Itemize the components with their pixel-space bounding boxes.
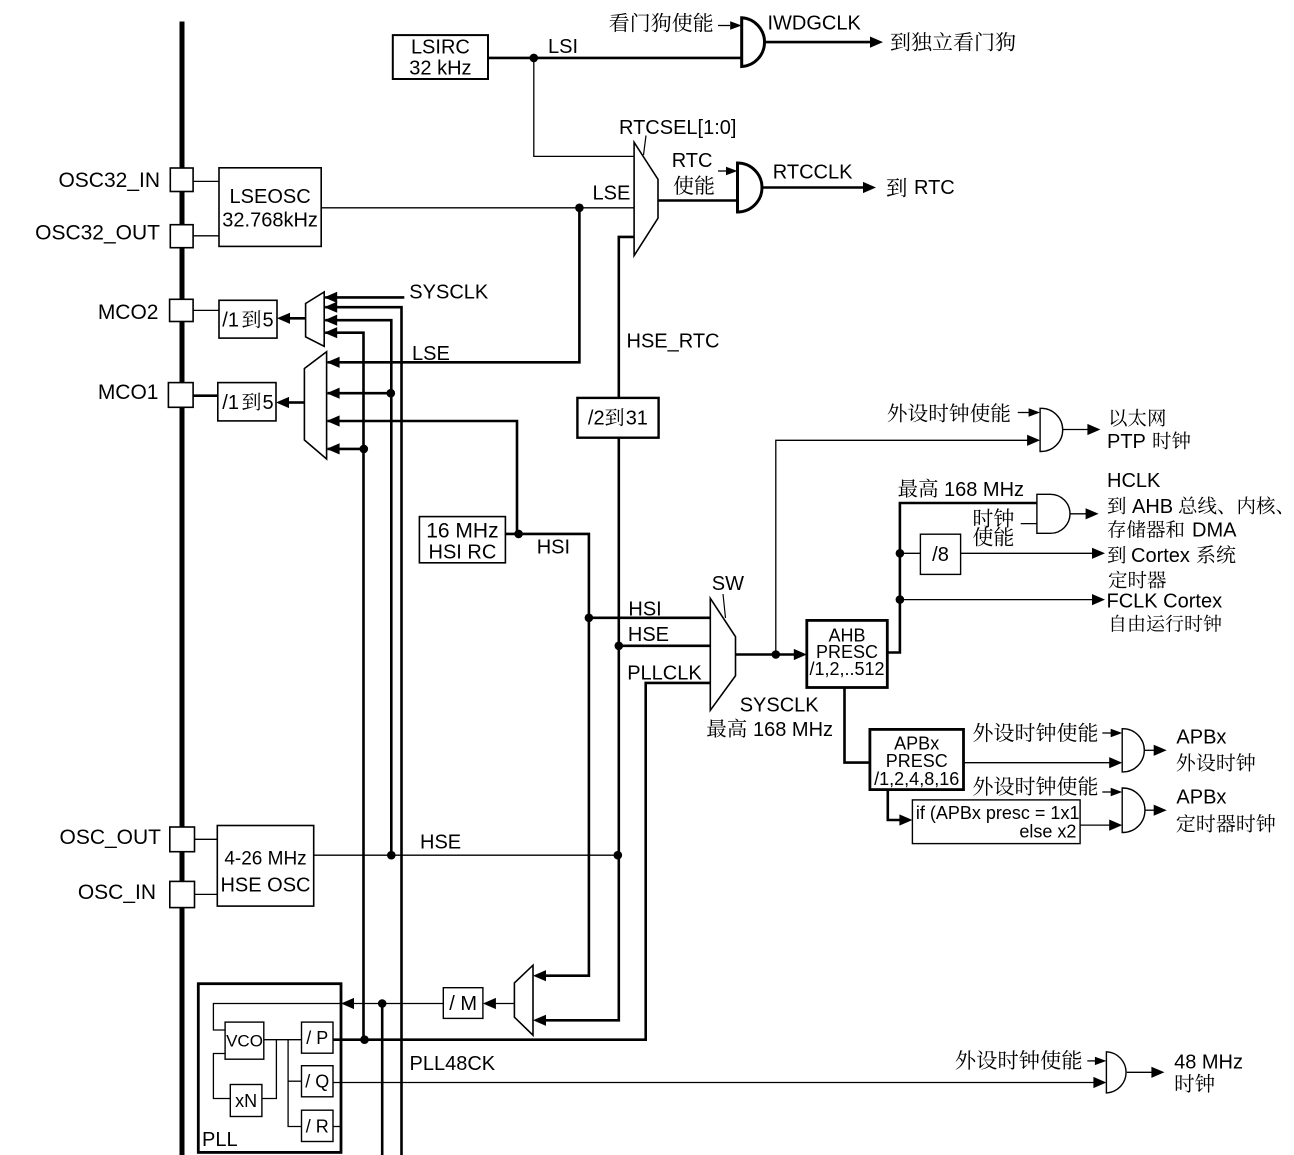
- wire VCO to /Q /R: [288, 1040, 301, 1127]
- box xN: [230, 1085, 262, 1117]
- arrow MCO1 in4: [327, 443, 340, 454]
- arrow PTP input: [1027, 435, 1040, 446]
- arrow MCO1 in1: [327, 357, 340, 368]
- label LSE MCO: [412, 343, 450, 365]
- arrow if box input: [899, 814, 912, 825]
- label PTP clock: [1107, 431, 1190, 453]
- wire LSI from LSIRC to IWDG gate: [488, 57, 742, 60]
- arrow HCLK output: [1086, 508, 1099, 519]
- wire VCO output: [264, 1039, 302, 1041]
- arrow MCO2 output: [277, 313, 290, 324]
- wire MCO1 pin stub: [193, 394, 218, 397]
- arrow MCO1 output: [276, 397, 289, 408]
- arrow RTCCLK to RTC: [863, 182, 876, 193]
- svg-text:HSI RC: HSI RC: [429, 542, 497, 564]
- svg-text:LSEOSC: LSEOSC: [230, 186, 311, 208]
- arrow APBx periph enable: [1111, 729, 1123, 737]
- and-gate HCLK: [1037, 494, 1070, 533]
- junction HSE MCO1: [387, 389, 396, 398]
- svg-text:/ M: / M: [449, 993, 477, 1015]
- box if APBx presc: [912, 800, 1080, 844]
- label OSC32_IN: [58, 169, 160, 192]
- wire HCLK gate output: [1070, 513, 1088, 515]
- pin MCO1: [168, 383, 193, 408]
- label peripheral clock enable APB1: [973, 723, 1097, 743]
- mux PLL input: [514, 965, 533, 1035]
- svg-text:DMA: DMA: [1192, 520, 1237, 542]
- arrow APBx timer enable: [1111, 788, 1123, 796]
- svg-text:RTC: RTC: [672, 150, 713, 172]
- svg-text:OSC_OUT: OSC_OUT: [59, 826, 161, 849]
- wire OSC32_IN pin stub: [193, 180, 219, 182]
- arrow MCO1 in2: [327, 388, 340, 399]
- wire 48MHz gate output: [1127, 1071, 1152, 1073]
- wire HSE_RTC vertical: [546, 237, 634, 1020]
- arrow 48MHz enable: [1095, 1057, 1107, 1065]
- wire FCLK Cortex: [900, 599, 1094, 601]
- box /R: [302, 1110, 334, 1141]
- svg-text:Cortex: Cortex: [1131, 545, 1190, 567]
- svg-text:HSE_RTC: HSE_RTC: [627, 331, 720, 353]
- svg-text:LSI: LSI: [548, 36, 578, 58]
- arrow MCO2 in3: [324, 315, 337, 326]
- wire PTP gate output: [1063, 429, 1089, 431]
- box APBx PRESC: [870, 729, 964, 789]
- label HSE SW: [628, 624, 669, 646]
- wire 48MHz enable stub: [1087, 1060, 1095, 1062]
- label MCO2: [98, 301, 159, 324]
- wire SYSCLK branch up to PTP gate: [776, 440, 1028, 654]
- svg-text:HSE OSC: HSE OSC: [220, 875, 310, 897]
- wire OSC_IN pin stub: [195, 893, 218, 895]
- wire HCLK enable stub: [1021, 523, 1037, 525]
- svg-text:48 MHz: 48 MHz: [1174, 1052, 1243, 1074]
- wire PTP enable stub: [1018, 412, 1029, 414]
- label RTCSEL[1:0]: [619, 117, 736, 139]
- label SW: [712, 573, 744, 595]
- svg-text:RTCSEL[1:0]: RTCSEL[1:0]: [619, 117, 736, 139]
- svg-text:/1,2,..512: /1,2,..512: [809, 659, 884, 679]
- wire xN output up: [262, 1040, 277, 1099]
- arrow 48MHz input: [1093, 1077, 1106, 1088]
- label timer: [1109, 571, 1166, 589]
- divider /2 to 31: [577, 398, 658, 438]
- svg-text:32 kHz: 32 kHz: [409, 58, 471, 80]
- box AHB PRESC: [807, 620, 888, 687]
- wire PLLI2S /M branch down: [381, 1004, 384, 1155]
- arrow RTC enable: [726, 167, 738, 175]
- wire SYSCLK to MCO2 mux: [325, 296, 404, 299]
- arrow PTP output: [1087, 424, 1100, 435]
- svg-text:APBx: APBx: [1176, 726, 1226, 748]
- arrow MCO1 in3: [327, 415, 340, 426]
- label APBx timer: [1176, 787, 1275, 833]
- svg-text:if (APBx presc = 1x1: if (APBx presc = 1x1: [916, 803, 1080, 823]
- mux RTCSEL: [634, 142, 658, 255]
- mux MCO2: [306, 292, 325, 346]
- junction LSI: [530, 54, 539, 63]
- wire HSE from HSE OSC: [314, 854, 618, 856]
- wire HCLK down to APBx PRESC: [845, 688, 870, 763]
- label PLLCLK: [627, 663, 702, 685]
- tick SW: [723, 594, 726, 618]
- wire APBx PRESC output to gate: [964, 762, 1111, 764]
- label to AHB bus core: [1108, 496, 1281, 518]
- svg-text:MCO1: MCO1: [98, 381, 159, 404]
- arrow PTP enable: [1029, 408, 1041, 416]
- wire APBx timer enable stub: [1102, 791, 1111, 793]
- wire HSI to SW mux: [589, 616, 710, 619]
- tick RTCSEL: [644, 136, 647, 156]
- label SYSCLK: [740, 695, 820, 717]
- label HSI SW: [628, 598, 661, 620]
- label RTC enable: [672, 150, 714, 195]
- divider /1 to 5 MCO1: [218, 383, 276, 421]
- wire APBx periph gate output: [1144, 749, 1155, 751]
- label MCO1: [98, 381, 159, 404]
- svg-text:16 MHz: 16 MHz: [426, 520, 498, 543]
- wire OSC_OUT pin stub: [195, 838, 218, 840]
- junction FCLK: [896, 595, 905, 604]
- chip boundary line: [180, 22, 185, 1155]
- label peripheral clock enable APB2: [973, 776, 1097, 796]
- pin OSC32_OUT: [170, 225, 193, 248]
- label clock enable: [973, 508, 1014, 546]
- wire PLL internal input: [213, 1004, 341, 1031]
- junction PLLI2S /M: [378, 999, 387, 1008]
- box /Q: [302, 1066, 334, 1097]
- svg-text:/2: /2: [588, 408, 605, 430]
- svg-text:LSE: LSE: [593, 182, 631, 204]
- svg-text:OSC32_OUT: OSC32_OUT: [35, 222, 160, 245]
- and-gate ethernet PTP: [1040, 408, 1063, 451]
- label FCLK Cortex: [1107, 591, 1223, 613]
- mux MCO1: [304, 352, 326, 459]
- junction HSE SW: [615, 642, 624, 651]
- arrow 48MHz output: [1151, 1067, 1164, 1078]
- wire HCLK to /8: [900, 552, 921, 554]
- junction PLL MCO1: [360, 445, 369, 454]
- arrow APBx timer input: [1109, 820, 1122, 831]
- svg-text:PLL: PLL: [202, 1129, 238, 1151]
- label LSI: [548, 36, 578, 58]
- svg-text:168 MHz: 168 MHz: [753, 719, 833, 741]
- label HSE: [420, 832, 461, 854]
- svg-text:HSE: HSE: [420, 832, 461, 854]
- label OSC32_OUT: [35, 222, 160, 245]
- and-gate 48MHz: [1106, 1052, 1126, 1093]
- arrow PLL mux in1: [533, 970, 546, 981]
- svg-text:168 MHz: 168 MHz: [944, 479, 1024, 501]
- arrow /M output to PLL: [341, 998, 354, 1009]
- wire LSE from LSEOSC to RTCSEL mux: [321, 207, 634, 209]
- svg-text:OSC32_IN: OSC32_IN: [58, 169, 160, 192]
- svg-text:SW: SW: [712, 573, 744, 595]
- label to RTC: [887, 177, 955, 199]
- junction HCLK /8: [896, 549, 905, 558]
- label ethernet: [1111, 409, 1166, 427]
- label max 168 MHz HCLK: [898, 479, 1024, 501]
- label OSC_OUT: [59, 826, 161, 849]
- arrow Cortex timer: [1092, 548, 1105, 559]
- wire HSI to MCO1 mux: [328, 421, 517, 534]
- svg-text:4-26 MHz: 4-26 MHz: [224, 849, 306, 870]
- arrow APBx periph output: [1154, 745, 1167, 756]
- svg-text:PLLCLK: PLLCLK: [627, 663, 702, 685]
- svg-text:IWDGCLK: IWDGCLK: [768, 13, 862, 35]
- junction PLLCLK: [360, 1035, 369, 1044]
- wire PLL48CK from /Q: [333, 1082, 1096, 1084]
- svg-text:else x2: else x2: [1019, 822, 1076, 842]
- svg-text:31: 31: [626, 408, 648, 430]
- wire /M to PLL: [354, 1003, 443, 1005]
- arrow MCO2 in4: [324, 327, 337, 338]
- arrow MCO2 in2: [324, 302, 337, 313]
- box 4-26 MHz HSE OSC: [217, 826, 313, 907]
- wire /R stub: [333, 1126, 341, 1128]
- label watchdog enable: [609, 13, 712, 32]
- svg-text:APBx: APBx: [1176, 787, 1226, 809]
- wire VCO to xN feedback: [213, 1054, 230, 1099]
- wire OSC32_OUT pin stub: [193, 235, 219, 237]
- wire /8 to Cortex timer: [961, 552, 1094, 554]
- box 16 MHz HSI RC: [419, 517, 505, 564]
- svg-text:5: 5: [263, 310, 274, 332]
- wire PLL input mux to /M: [495, 1003, 514, 1005]
- arrow IWDG enable: [730, 21, 742, 29]
- wire LSE vertical branch to MCO1 mux: [328, 208, 580, 362]
- wire MCO2 pin stub: [193, 309, 219, 311]
- wire PLL to MCO2 mux: [325, 333, 363, 1040]
- wire HSI from HSI RC: [505, 534, 589, 976]
- wire HSE to MCO2 mux: [325, 320, 391, 855]
- wire MCO1 mux output: [289, 401, 304, 404]
- wire PLLI2S vertical to MCO2 mux: [325, 307, 401, 1155]
- label PLL48CK: [410, 1053, 496, 1075]
- wire RTC mux output to gate: [658, 199, 738, 202]
- svg-text:xN: xN: [235, 1091, 257, 1111]
- wire to /Q: [288, 1080, 301, 1082]
- svg-text:LSE: LSE: [412, 343, 450, 365]
- label OSC_IN: [78, 881, 156, 904]
- label free running clock: [1112, 614, 1221, 632]
- junction HSE vertical 2: [614, 851, 623, 860]
- label 48 MHz clock: [1174, 1052, 1243, 1093]
- wire PLL to MCO1 mux: [328, 448, 364, 451]
- svg-text:/ Q: / Q: [305, 1072, 329, 1092]
- wire APBx timer gate output: [1144, 809, 1155, 811]
- svg-text:/ P: / P: [306, 1028, 328, 1048]
- arrow APBx timer output: [1154, 805, 1167, 816]
- junction SYSCLK: [772, 650, 781, 659]
- junction LSE: [575, 204, 584, 213]
- svg-text:HSI: HSI: [537, 536, 570, 558]
- and-gate IWDG: [742, 18, 765, 67]
- label peripheral clock enable PTP: [888, 403, 1010, 422]
- svg-text:/1: /1: [222, 392, 239, 414]
- svg-text:/1,2,4,8,16: /1,2,4,8,16: [874, 769, 959, 789]
- arrow PLL mux output to /M: [483, 998, 496, 1009]
- arrow SYSCLK to AHB PRESC: [794, 649, 807, 660]
- arrow PLL mux in2: [533, 1015, 546, 1026]
- svg-text:RTC: RTC: [914, 177, 955, 199]
- svg-text:FCLK Cortex: FCLK Cortex: [1107, 591, 1223, 613]
- svg-text:PLL48CK: PLL48CK: [410, 1053, 496, 1075]
- wire APBx PRESC down to if box: [888, 790, 900, 820]
- arrow APBx periph input: [1109, 757, 1122, 768]
- svg-text:RTCCLK: RTCCLK: [773, 162, 853, 184]
- arrow FCLK Cortex: [1092, 594, 1105, 605]
- wire HSE to MCO1 mux: [328, 392, 392, 395]
- label memory and DMA: [1108, 520, 1237, 542]
- label APBx peripheral: [1176, 726, 1255, 771]
- wire if box to timer gate: [1080, 824, 1110, 826]
- svg-text:32.768kHz: 32.768kHz: [222, 210, 318, 232]
- box /P: [302, 1022, 334, 1053]
- svg-text:/1: /1: [222, 310, 239, 332]
- svg-text:LSIRC: LSIRC: [411, 37, 470, 59]
- svg-text:5: 5: [263, 392, 274, 414]
- svg-text:VCO: VCO: [226, 1032, 263, 1051]
- arrow IWDGCLK to watchdog: [870, 37, 883, 48]
- box LSIRC 32 kHz: [393, 35, 488, 79]
- arrow MCO2 in1: [324, 292, 337, 303]
- label peripheral clock enable 48M: [956, 1050, 1082, 1070]
- divider /1 to 5 MCO2: [219, 300, 277, 338]
- junction HSI branch: [514, 530, 523, 539]
- label SYSCLK MCO: [409, 281, 489, 303]
- pin OSC_IN: [170, 881, 195, 907]
- label HSI RC out: [537, 536, 570, 558]
- wire PLLCLK from PLL /P: [333, 683, 710, 1040]
- svg-text:HSI: HSI: [628, 598, 661, 620]
- junction HSI SW: [585, 614, 594, 623]
- label to Cortex system: [1108, 545, 1236, 567]
- wire APBx periph enable stub: [1102, 732, 1111, 734]
- box VCO: [225, 1022, 264, 1059]
- svg-text:HCLK: HCLK: [1107, 470, 1161, 492]
- wire HCLK from AHB PRESC to gate: [887, 503, 1037, 653]
- box /8: [920, 534, 960, 574]
- mux SW: [710, 598, 735, 710]
- svg-text:AHB: AHB: [1132, 496, 1173, 518]
- svg-text:MCO2: MCO2: [98, 301, 159, 324]
- wire LSI branch down to RTCSEL mux: [534, 58, 634, 156]
- label to independent watchdog: [891, 32, 1015, 51]
- wire HSE branch to SW mux: [619, 644, 711, 647]
- svg-text:SYSCLK: SYSCLK: [409, 281, 489, 303]
- and-gate APBx timer: [1122, 788, 1145, 833]
- wire SYSCLK from SW mux to AHB PRESC: [736, 653, 796, 656]
- label RTCCLK: [773, 162, 853, 184]
- box LSEOSC 32.768kHz: [219, 168, 321, 247]
- box PLL: [198, 984, 341, 1153]
- box /M: [443, 988, 483, 1019]
- wire IWDG enable stub: [718, 25, 730, 27]
- wire MCO2 mux output: [289, 317, 306, 320]
- pin MCO2: [170, 299, 194, 321]
- svg-text:PTP: PTP: [1107, 431, 1146, 453]
- svg-text:/8: /8: [932, 544, 949, 566]
- pin OSC32_IN: [170, 168, 193, 192]
- label HSE_RTC: [627, 331, 720, 353]
- junction HSE vertical 1: [387, 851, 396, 860]
- wire RTCCLK output: [761, 186, 864, 189]
- and-gate RTC: [738, 163, 762, 212]
- wire IWDGCLK output: [766, 41, 872, 44]
- label max 168 MHz: [707, 719, 833, 741]
- svg-text:SYSCLK: SYSCLK: [740, 695, 820, 717]
- wire RTC enable stub: [718, 170, 727, 172]
- svg-text:HSE: HSE: [628, 624, 669, 646]
- svg-text:OSC_IN: OSC_IN: [78, 881, 156, 904]
- label LSE at mux: [593, 182, 631, 204]
- pin OSC_OUT: [170, 827, 195, 852]
- label HCLK: [1107, 470, 1161, 492]
- label IWDGCLK: [768, 13, 862, 35]
- and-gate APBx peripheral: [1122, 729, 1144, 772]
- svg-text:/ R: / R: [306, 1116, 329, 1136]
